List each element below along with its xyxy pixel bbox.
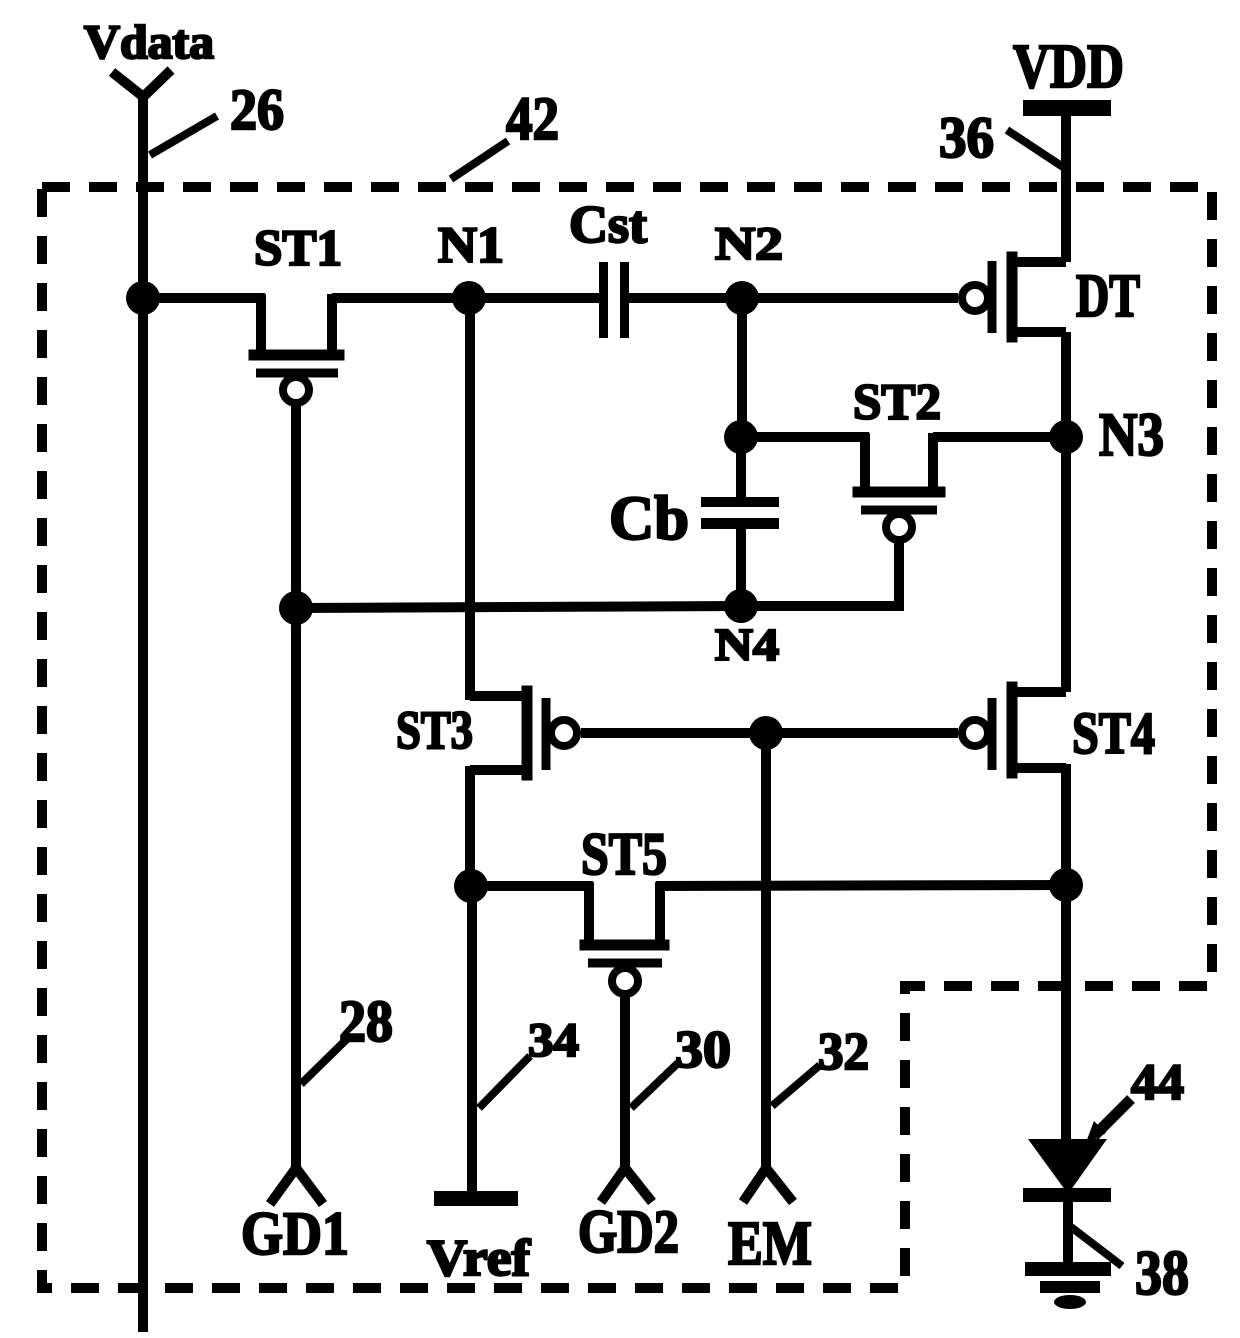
power terminal VDD bar — [1023, 100, 1111, 116]
wire gate row ST3 to EM junction — [581, 728, 766, 738]
terminal GD2 arrow — [601, 1168, 652, 1202]
node N3 — [1049, 420, 1083, 454]
wire N2 to DT gate — [742, 293, 958, 303]
terminal Vref bar — [434, 1191, 518, 1206]
svg-text:DT: DT — [1076, 263, 1140, 330]
wire Cst to N2 — [628, 293, 742, 303]
reference 44 arrow — [1094, 1099, 1131, 1136]
wire Vref line — [467, 886, 477, 1192]
wire ST5 to OLED junction — [656, 885, 1066, 886]
svg-text:ST1: ST1 — [254, 221, 342, 277]
wire OLED cathode to ground — [1063, 1202, 1073, 1266]
wire ST4 down to OLED junction — [1061, 764, 1071, 885]
svg-text:42: 42 — [506, 86, 559, 153]
transistor ST1 — [254, 294, 339, 403]
junction dot Vdata / main row — [126, 281, 160, 315]
reference 26 slash — [150, 116, 217, 155]
transistor ST3 — [470, 691, 577, 775]
junction dot gate row / EM — [749, 716, 783, 750]
svg-text:28: 28 — [339, 988, 393, 1054]
wire N3 down to ST4 — [1061, 437, 1071, 692]
reference 42 slash — [451, 141, 508, 179]
svg-text:ST2: ST2 — [853, 375, 941, 431]
wire junction to ST2 — [741, 432, 869, 442]
wire gate row junction to ST4 gate — [766, 728, 958, 738]
terminal EM arrow — [743, 1168, 793, 1202]
svg-text:GD1: GD1 — [241, 1201, 349, 1268]
svg-text:ST3: ST3 — [396, 700, 473, 760]
wire N4 row junction to N4 — [296, 606, 741, 608]
svg-text:Vdata: Vdata — [84, 16, 214, 69]
wire VDD to DT source — [1061, 112, 1071, 262]
reference 28 slash — [301, 1037, 349, 1084]
node N2 — [725, 281, 759, 315]
wire ST1 to N1 to Cst — [332, 293, 600, 303]
node N1 — [452, 281, 486, 315]
svg-text:36: 36 — [939, 105, 994, 170]
svg-text:EM: EM — [728, 1210, 812, 1278]
wire ST5 gate to GD2 — [620, 995, 630, 1173]
svg-text:30: 30 — [675, 1021, 731, 1079]
reference 34 slash — [479, 1056, 530, 1108]
wire N2 down to Cb junction — [737, 298, 747, 437]
svg-text:Cb: Cb — [609, 485, 689, 553]
reference 30 slash — [631, 1063, 678, 1108]
svg-text:N1: N1 — [438, 218, 504, 274]
wire Cb bottom plate to N4 — [736, 529, 746, 606]
transistor DT — [962, 257, 1066, 337]
transistor ST5 — [585, 882, 664, 994]
svg-text:38: 38 — [1135, 1237, 1189, 1308]
junction dot ST1 gate / N4 row / GD1 — [279, 591, 313, 625]
reference 32 slash — [772, 1065, 820, 1106]
wire Vdata data line — [112, 70, 171, 1332]
wire ST2 to N3 — [933, 432, 1066, 442]
svg-text:N2: N2 — [715, 218, 783, 270]
diode OLED 44 — [1023, 1139, 1111, 1202]
wire EM scan line — [761, 733, 771, 1173]
svg-text:44: 44 — [1131, 1055, 1184, 1111]
node N4 — [724, 589, 758, 623]
svg-text:Vref: Vref — [427, 1230, 531, 1287]
terminal GD1 arrow — [270, 1168, 323, 1204]
svg-text:N4: N4 — [715, 620, 779, 670]
wire ST2 gate to N4 — [741, 540, 899, 606]
svg-text:GD2: GD2 — [578, 1199, 679, 1266]
wire junction to ST5 — [471, 881, 593, 891]
ground 38 — [1025, 1262, 1111, 1309]
svg-text:VDD: VDD — [1013, 33, 1124, 101]
wire OLED anode line — [1061, 885, 1071, 1142]
reference 36 slash — [1007, 130, 1063, 167]
junction dot Vref / ST5 — [454, 869, 488, 903]
wire ST3 down to Vref junction — [465, 766, 475, 886]
wire Vdata junction to ST1 — [143, 293, 265, 303]
transistor ST4 — [962, 687, 1066, 773]
wire N1 down to ST3 — [465, 298, 475, 700]
capacitor Cst — [599, 262, 629, 338]
svg-text:32: 32 — [818, 1023, 869, 1081]
svg-text:ST4: ST4 — [1072, 700, 1155, 766]
wire DT drain to N3 — [1061, 332, 1071, 437]
svg-text:Cst: Cst — [569, 196, 647, 254]
junction dot ST5 / OLED anode — [1049, 868, 1083, 902]
dashed pixel-circuit boundary 42 — [42, 187, 1212, 1288]
svg-text:34: 34 — [528, 1014, 579, 1067]
reference 38 slash — [1071, 1227, 1122, 1266]
svg-text:26: 26 — [230, 77, 284, 142]
wire junction to Cb top plate — [736, 437, 746, 500]
transistor ST2 — [858, 433, 940, 540]
svg-text:N3: N3 — [1099, 402, 1164, 469]
wire GD1 scan line — [291, 608, 301, 1173]
junction dot N2 / Cb / ST2 — [724, 420, 758, 454]
capacitor Cb — [701, 497, 779, 529]
wire ST1 gate down to junction — [291, 403, 301, 608]
svg-text:ST5: ST5 — [581, 821, 667, 887]
